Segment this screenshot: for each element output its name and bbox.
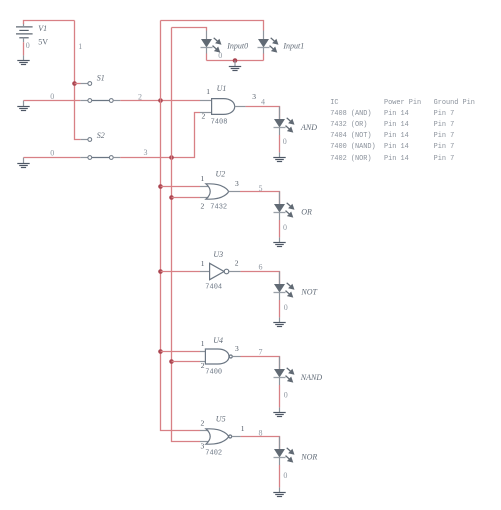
wire stub to S2 throw (79, 139, 81, 141)
svg-text:7400: 7400 (205, 369, 222, 377)
svg-text:7402: 7402 (205, 449, 222, 457)
svg-text:0: 0 (283, 137, 287, 146)
svg-text:6: 6 (259, 263, 263, 272)
svg-text:2: 2 (202, 112, 206, 121)
wire LED commons (207, 60, 264, 62)
wire net 5 (240, 192, 280, 205)
junction U2 pin2 (169, 195, 174, 200)
svg-text:1: 1 (78, 42, 82, 51)
svg-text:7432: 7432 (210, 204, 227, 212)
svg-text:NOR: NOR (300, 453, 317, 462)
wire net 8 (241, 437, 280, 450)
wire U2 pin1 (161, 186, 201, 188)
svg-text:0: 0 (26, 41, 30, 50)
svg-text:S1: S1 (97, 74, 105, 83)
junction U2 pin1 (158, 184, 163, 189)
svg-text:3: 3 (235, 179, 239, 188)
ground below battery (17, 55, 29, 64)
wire U3 pin1 (161, 271, 201, 273)
ground NOR (273, 487, 285, 496)
svg-text:5V: 5V (38, 37, 48, 46)
svg-text:U1: U1 (217, 84, 227, 93)
wire net 4 (246, 107, 280, 120)
wire net2 to Input1 (161, 21, 264, 31)
svg-text:Input1: Input1 (282, 42, 304, 51)
svg-text:2: 2 (235, 258, 239, 267)
wire net 7 (241, 357, 280, 370)
junction U4 pin2 (169, 359, 174, 364)
AND gate U1 (200, 99, 246, 115)
NOT gate U3 (200, 263, 241, 279)
svg-text:2: 2 (201, 201, 205, 210)
OR gate U2 (200, 184, 240, 199)
junction net3 bus (169, 155, 174, 160)
svg-text:NOT: NOT (300, 288, 317, 297)
svg-text:0: 0 (50, 92, 54, 101)
ground top center (229, 61, 241, 71)
svg-text:0: 0 (284, 391, 288, 400)
ground AND (273, 152, 285, 161)
wire net3 to Input0 (172, 28, 207, 31)
svg-text:1: 1 (201, 174, 205, 183)
svg-text:0: 0 (50, 148, 54, 157)
svg-text:0: 0 (283, 223, 287, 232)
LED NAND (274, 357, 295, 386)
svg-text:3: 3 (252, 92, 256, 101)
svg-text:5: 5 (259, 184, 263, 193)
wire net 6 (241, 272, 280, 285)
svg-text:3: 3 (144, 148, 148, 157)
wire U2 pin2 (172, 197, 201, 199)
svg-text:2: 2 (201, 361, 205, 370)
svg-text:0: 0 (283, 471, 287, 480)
svg-text:0: 0 (218, 51, 222, 60)
svg-text:2: 2 (138, 92, 142, 101)
svg-text:1: 1 (241, 424, 245, 433)
svg-text:AND: AND (300, 123, 317, 132)
svg-text:Input0: Input0 (226, 42, 248, 51)
wire net 1 vertical (75, 21, 81, 140)
wire net 0 OR (279, 220, 281, 237)
ground left row2 (17, 158, 29, 168)
wire net 1 top (24, 21, 75, 25)
svg-text:4: 4 (261, 98, 265, 107)
junction U3 pin1 (158, 269, 163, 274)
svg-text:1: 1 (206, 87, 210, 96)
svg-text:0: 0 (284, 303, 288, 312)
wire U4 pin1 (161, 351, 201, 353)
LED NOT (274, 272, 295, 301)
wire net 0 AND (279, 135, 281, 152)
wire net 2 (120, 100, 200, 102)
svg-text:2: 2 (201, 418, 205, 427)
ground NOT (273, 317, 285, 326)
svg-text:7: 7 (259, 348, 263, 357)
LED Input1 (258, 31, 279, 61)
wire net 3 (120, 113, 200, 158)
svg-text:1: 1 (201, 339, 205, 348)
svg-text:3: 3 (201, 441, 205, 450)
svg-text:OR: OR (301, 207, 312, 216)
wire U4 pin2 (172, 361, 201, 363)
wire net 0 NAND (279, 385, 281, 407)
battery V1 (16, 24, 33, 43)
svg-text:U2: U2 (216, 170, 226, 179)
wire battery to ground (23, 42, 25, 55)
bus net 2 vertical (161, 21, 201, 431)
switch S1 (80, 82, 120, 103)
wire stub to S1 throw (75, 83, 81, 85)
bus net 3 vertical (172, 28, 201, 442)
wire net 0 NOT (279, 300, 281, 317)
svg-text:8: 8 (259, 428, 263, 437)
wire net 0 row2 (24, 157, 81, 159)
junction U4 pin1 (158, 349, 163, 354)
ground left row1 (17, 101, 29, 111)
NAND gate U4 (200, 349, 241, 364)
svg-text:U5: U5 (216, 415, 226, 424)
svg-text:U4: U4 (213, 336, 223, 345)
svg-text:7408: 7408 (211, 119, 228, 127)
svg-text:3: 3 (235, 344, 239, 353)
svg-text:S2: S2 (97, 131, 105, 140)
svg-text:1: 1 (201, 259, 205, 268)
IC pin table (330, 98, 475, 165)
wire net 0 NOR (279, 465, 281, 487)
svg-text:U3: U3 (213, 250, 223, 259)
ground NAND (273, 407, 285, 416)
switch S2 (80, 138, 120, 160)
svg-text:NAND: NAND (300, 373, 323, 382)
ground OR (273, 237, 285, 246)
NOR gate U5 (200, 429, 241, 444)
LED Input0 (201, 31, 222, 61)
svg-text:7404: 7404 (205, 284, 222, 292)
junction node net1/S1 (72, 81, 77, 86)
LED AND (274, 107, 295, 136)
LED OR (274, 192, 295, 221)
LED NOR (274, 437, 295, 466)
junction LED commons (233, 58, 238, 63)
wire net 0 row1 (24, 100, 81, 102)
junction net2 bus (158, 98, 163, 103)
svg-text:V1: V1 (38, 24, 47, 33)
